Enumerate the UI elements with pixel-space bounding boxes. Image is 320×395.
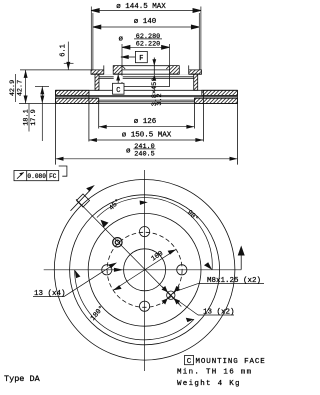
runout feature control frame [14, 166, 67, 181]
datum F box [120, 51, 147, 62]
fraction bar 62.280/62.220 [134, 38, 162, 40]
bolt hole top [140, 227, 150, 237]
dim ext lines ø144.5/ø140 left [90, 7, 92, 70]
dim ø126 [99, 125, 195, 129]
dim line ø140 [93, 26, 199, 28]
section: hat wall left [95, 74, 99, 90]
bolt hole right [177, 265, 187, 275]
section: ring inner edge right + ext [202, 90, 204, 141]
datum C box [113, 74, 125, 94]
section: boss bottom line [122, 69, 170, 71]
dim ø241.0/240.5 [56, 149, 238, 161]
svg-text:240.5: 240.5 [134, 151, 154, 159]
svg-text:62.220: 62.220 [136, 40, 160, 48]
svg-text:17.9: 17.9 [30, 109, 38, 125]
bore circle [124, 249, 166, 291]
svg-text:6.1: 6.1 [60, 44, 68, 57]
section: boss under-face line [99, 76, 194, 78]
section: outboard plate far-side edge lines [99, 99, 195, 101]
section: left ring outboard plate [56, 98, 99, 103]
section: outboard plate inner edge left + ext [98, 98, 100, 128]
dim ext lines ø144.5/ø140 right [200, 7, 202, 70]
svg-text:MOUNTING FACE: MOUNTING FACE [196, 358, 266, 366]
dim 6.1 [20, 42, 91, 70]
svg-text:ø: ø [126, 148, 131, 156]
dim 42.9/42.7 [19, 70, 56, 104]
dim line ø144.5 MAX [91, 10, 201, 12]
section: hat wall right [194, 74, 198, 90]
diamond mark [77, 194, 90, 207]
dim ø150.5 MAX [89, 138, 203, 142]
diagonal axis line [76, 199, 181, 306]
section: outboard face line [56, 103, 238, 105]
svg-text:C: C [187, 358, 192, 366]
section: right ring inboard plate [202, 90, 238, 95]
section: ring inner edge left + ext [88, 90, 90, 141]
vertical center line [144, 170, 146, 371]
crossed hole [167, 291, 175, 299]
bolt circle (dashed) [107, 232, 182, 307]
45 deg label [107, 197, 122, 212]
section: vent mid line [56, 96, 238, 98]
svg-text:Min. TH 16 mm: Min. TH 16 mm [177, 369, 252, 377]
section: disc right edge [237, 90, 239, 164]
dim line ø62.28 [122, 46, 170, 48]
section: flange bottom line [91, 73, 202, 75]
horizontal center line [44, 269, 242, 271]
section: hat flange right hatched piece [170, 65, 202, 75]
bolt hole bottom [140, 301, 150, 311]
svg-text:Weight 4 Kg: Weight 4 Kg [177, 380, 241, 388]
180 deg label [89, 304, 107, 323]
section: vent bottom line [56, 97, 238, 99]
section: vent top line [56, 94, 238, 96]
svg-text:C: C [116, 87, 120, 95]
small arrow at bore [114, 268, 124, 272]
section: disc left edge [55, 90, 57, 164]
svg-text:ø 144.5 MAX: ø 144.5 MAX [116, 3, 166, 11]
svg-text:0.080: 0.080 [27, 173, 46, 180]
svg-text:3.2: 3.2 [156, 93, 164, 105]
outer circle ø241 [54, 179, 235, 360]
angular dim arc 180 [75, 270, 195, 340]
section: inboard face line [56, 89, 238, 91]
section: right ring outboard plate [194, 98, 237, 103]
note: mounting face [185, 356, 194, 365]
svg-text:ø 126: ø 126 [134, 118, 157, 126]
FRONT VIEW [44, 170, 242, 371]
svg-text:F: F [139, 55, 143, 63]
section: bore chamfer notches [122, 66, 170, 69]
chamfer leader arrow [152, 58, 156, 81]
svg-text:ø 150.5 MAX: ø 150.5 MAX [122, 132, 172, 140]
svg-text:ø 140: ø 140 [134, 18, 157, 26]
section: boss top far-side line [122, 65, 170, 67]
section: counterbore bottom [122, 74, 170, 86]
bolt hole left [102, 265, 112, 275]
braking band circle [70, 195, 220, 345]
section: outboard plate inner edge right + ext [193, 98, 195, 128]
hat flange circle [88, 213, 201, 326]
angular dim arc 45-0 [97, 198, 212, 270]
svg-text:ø: ø [119, 36, 124, 44]
dim 18.1/17.9 [35, 86, 49, 141]
vertical leader arrow right [238, 246, 245, 270]
dim 100 diagonal [113, 250, 176, 291]
section: boss under-face line 2 [99, 77, 194, 79]
svg-text:Type DA: Type DA [4, 374, 41, 384]
runout leader arrow [71, 185, 95, 211]
dim ext lines ø62.28 [121, 44, 123, 65]
svg-text:FC: FC [49, 173, 57, 180]
svg-text:42.7: 42.7 [16, 80, 24, 96]
section: hat flange left hatched piece [91, 65, 122, 75]
chamfer text 3.8/3.2 x45 [150, 78, 164, 107]
90 deg label [185, 208, 200, 223]
section: left ring inboard plate [56, 90, 89, 95]
M8 tapped hole (double circle) [113, 238, 122, 247]
